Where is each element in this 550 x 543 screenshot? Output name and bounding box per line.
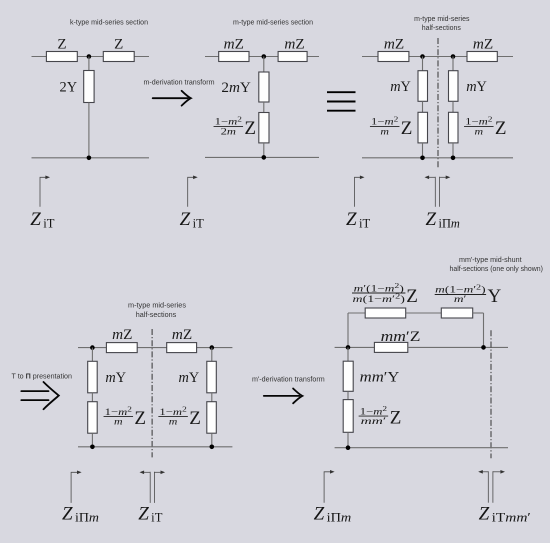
svg-text:Z: Z	[495, 118, 507, 139]
wire: C5 middle rail left part	[335, 346, 375, 348]
wire: C1 bottom rail	[32, 157, 150, 159]
wire: C4 right stub middle	[211, 393, 213, 402]
wire: C4 bottom rail	[78, 446, 232, 448]
resistor m(1-m'^2)/m' Y (C5 top right)	[435, 283, 502, 318]
node: C2 top junction	[262, 54, 267, 59]
node: C3 left top junction	[420, 54, 425, 59]
arrow: T to Pi (double arrow)	[21, 382, 59, 409]
wire: C3 right stub middle	[452, 101, 454, 112]
resistor mZ (C3 right series)	[467, 37, 497, 62]
svg-text:mY: mY	[390, 79, 411, 95]
wire: C2 shunt stub middle	[263, 102, 265, 113]
resistor mZ (C4 right series)	[167, 327, 197, 353]
wire: C3 bottom rail	[362, 157, 513, 159]
wire: C1 top rail	[32, 56, 150, 58]
svg-text:2mY: 2mY	[221, 80, 251, 96]
svg-text:m: m	[475, 127, 484, 137]
wire: C3 top rail	[362, 56, 513, 58]
svg-text:mm′: mm′	[361, 417, 387, 427]
resistor (1-m^2)/mm' Z (C5 shunt lower)	[343, 400, 401, 433]
svg-text:mZ: mZ	[473, 37, 493, 53]
node: C1 top junction	[87, 54, 92, 59]
resistor 2Y (C1 shunt)	[60, 71, 95, 103]
dash-dot section plane (C3)	[437, 38, 439, 168]
svg-text:mZ: mZ	[172, 327, 192, 343]
svg-text:Z: Z	[390, 407, 402, 428]
svg-text:m: m	[114, 418, 123, 428]
node: C2 bottom junction	[262, 155, 267, 160]
dash-dot section plane (C5)	[490, 330, 492, 458]
svg-text:m: m	[169, 418, 178, 428]
wire: C3 left stub top	[422, 57, 424, 71]
resistor (1-m^2)/m Z (C3 right shunt lower)	[449, 112, 507, 143]
node: C3 right bottom junction	[451, 156, 456, 161]
label ZiPim (C5)	[314, 503, 352, 524]
svg-text:mm'-type mid-shunt: mm'-type mid-shunt	[459, 257, 522, 264]
resistor (1-m^2)/2m Z (C2 shunt lower)	[214, 113, 269, 143]
double-line arrows: C4 ZiT plane	[140, 471, 166, 503]
resistor mm'Y (C5 shunt upper)	[343, 361, 399, 391]
node: C3 right top junction	[451, 54, 456, 59]
svg-text:Z: Z	[244, 118, 256, 139]
wire: C4 left stub top	[91, 348, 93, 362]
wire: C2 bottom rail	[205, 156, 319, 158]
wire: C3 left stub middle	[422, 101, 424, 112]
resistor mZ (C3 left series)	[378, 37, 409, 62]
label ZiT (C3)	[346, 209, 371, 230]
svg-text:m: m	[380, 127, 389, 137]
svg-text:2Y: 2Y	[60, 80, 78, 96]
wire: C3 left stub bottom	[422, 143, 424, 158]
wire: C5 shunt stub middle	[347, 391, 349, 399]
svg-text:mY: mY	[178, 370, 199, 386]
wire: C4 top rail	[78, 347, 232, 349]
svg-text:iT: iT	[151, 511, 163, 525]
wire: C5 top branch right segment	[473, 312, 484, 314]
node: C5 left middle junction	[346, 345, 351, 350]
node: C1 bottom junction	[87, 156, 92, 161]
svg-text:Z: Z	[406, 286, 418, 307]
wire: C2 top rail	[205, 56, 319, 58]
wire: C5 middle rail right part	[408, 346, 508, 348]
svg-text:Z: Z	[346, 209, 357, 230]
svg-text:mZ: mZ	[224, 37, 244, 53]
svg-text:Y: Y	[488, 286, 502, 307]
svg-text:mZ: mZ	[284, 37, 304, 53]
svg-text:Z: Z	[401, 118, 413, 139]
wire: C3 right stub top	[452, 57, 454, 71]
svg-text:Z: Z	[479, 503, 490, 524]
wire: C4 left stub bottom	[91, 433, 93, 447]
svg-text:Z: Z	[62, 503, 73, 524]
wire: C4 left stub middle	[91, 393, 93, 402]
node: C3 left bottom junction	[420, 156, 425, 161]
label ZiPim (C3)	[426, 209, 460, 230]
svg-text:Z: Z	[57, 37, 66, 53]
wire: C5 top branch left segment	[348, 312, 365, 314]
arrow: m'-derivation transform	[264, 389, 303, 404]
node: C4 right top junction	[210, 345, 215, 350]
title: mm'-type mid-shunt half-sections (one only shown)	[450, 257, 543, 273]
svg-text:Z: Z	[426, 209, 437, 230]
svg-text:mY: mY	[466, 79, 487, 95]
label ZiT (C4)	[138, 503, 163, 524]
dash-dot section plane (C4)	[151, 329, 153, 457]
svg-text:iΠm: iΠm	[75, 511, 99, 525]
wire: C5 top branch middle segment	[406, 312, 442, 314]
svg-text:m-type mid-series: m-type mid-series	[128, 303, 187, 310]
svg-text:half-sections: half-sections	[422, 25, 462, 32]
label ZiTmm' (C5)	[479, 503, 532, 524]
svg-text:Z: Z	[134, 408, 146, 429]
node: C4 left bottom junction	[90, 445, 95, 450]
elbow arrow: C5 ZiPim measurement	[324, 470, 335, 503]
resistor Z (C1 left series)	[46, 37, 77, 62]
wire: C5 top branch right riser	[483, 313, 485, 347]
elbow arrow: C2 ZiT measurement	[188, 176, 198, 207]
node: C5 bottom junction	[346, 445, 351, 450]
wire: C5 bottom rail	[335, 447, 508, 449]
wire: C5 top branch left riser	[347, 313, 349, 347]
svg-text:iΠm: iΠm	[439, 217, 460, 231]
svg-text:half-sections (one only shown): half-sections (one only shown)	[450, 266, 543, 273]
elbow arrow: C1 ZiT measurement	[40, 176, 50, 207]
svg-text:mm′Y: mm′Y	[360, 369, 400, 385]
resistor Z (C1 right series)	[103, 37, 134, 62]
wire: C4 right stub top	[211, 348, 213, 362]
resistor mY (C4 left shunt upper)	[88, 361, 127, 393]
resistor mZ (C2 right series)	[278, 37, 307, 62]
node: C4 right bottom junction	[210, 445, 215, 450]
svg-text:T to Π presentation: T to Π presentation	[12, 373, 73, 380]
svg-text:mZ: mZ	[384, 37, 404, 53]
wire: C4 right stub bottom	[211, 433, 213, 447]
wire: C1 shunt stub top	[88, 57, 90, 71]
wire: C1 shunt stub bottom	[88, 103, 90, 158]
double-line arrows: C5 ZiTmm' plane	[478, 470, 505, 503]
wire: C5 shunt stub top	[347, 347, 349, 361]
elbow arrow: C4 ZiPim measurement	[71, 471, 82, 503]
svg-text:iT: iT	[193, 217, 205, 231]
title: m-type mid-series half-sections	[128, 303, 187, 319]
svg-text:iT: iT	[43, 217, 55, 231]
svg-text:2m: 2m	[221, 127, 237, 137]
resistor mm'Z (C5 series)	[374, 329, 420, 353]
svg-text:m'-derivation transform: m'-derivation transform	[252, 376, 325, 383]
svg-text:Z: Z	[314, 503, 325, 524]
resistor mZ (C4 left series)	[106, 327, 137, 353]
double-line arrows: C3 ZiPim plane	[425, 176, 451, 207]
svg-text:iΠm: iΠm	[327, 511, 352, 525]
svg-text:iT: iT	[359, 217, 371, 231]
svg-text:half-sections: half-sections	[136, 312, 177, 319]
wire: C3 right stub bottom	[452, 143, 454, 158]
title: m-type mid-series half-sections	[414, 16, 470, 32]
elbow arrow: C3 ZiT measurement	[355, 176, 365, 207]
arrow: m-derivation transform	[153, 91, 191, 106]
resistor m'(1-m^2)/m(1-m'^2) Z (C5 top left)	[352, 282, 418, 318]
label ZiT (C1)	[30, 209, 55, 230]
resistor mZ (C2 left series)	[219, 37, 249, 62]
wire: C2 shunt stub top	[263, 57, 265, 73]
svg-text:m-derivation transform: m-derivation transform	[144, 80, 215, 87]
label ZiPim (C4)	[62, 503, 99, 524]
svg-text:Z: Z	[189, 408, 201, 429]
node: C5 right middle junction	[481, 345, 486, 350]
svg-text:Z: Z	[138, 503, 149, 524]
resistor mY (C4 right shunt upper)	[178, 361, 216, 393]
svg-text:Z: Z	[180, 209, 191, 230]
svg-text:m′: m′	[454, 295, 467, 305]
resistor (1-m^2)/m Z (C4 left shunt lower)	[88, 402, 146, 434]
wire: C5 shunt stub bottom	[347, 432, 349, 447]
svg-text:iTmm′: iTmm′	[492, 511, 532, 525]
resistor 2mY (C2 shunt upper)	[221, 72, 269, 102]
resistor (1-m^2)/m Z (C3 left shunt lower)	[370, 112, 428, 143]
svg-text:Z: Z	[30, 209, 41, 230]
svg-text:mm′Z: mm′Z	[381, 329, 421, 345]
svg-text:mY: mY	[105, 370, 126, 386]
resistor (1-m^2)/m Z (C4 right shunt lower)	[158, 402, 216, 434]
svg-text:m-type mid-series section: m-type mid-series section	[233, 20, 313, 27]
svg-text:k-type mid-series section: k-type mid-series section	[70, 20, 148, 27]
svg-text:mZ: mZ	[112, 327, 132, 343]
equivalence sign	[327, 92, 356, 111]
resistor mY (C3 left shunt upper)	[390, 71, 427, 102]
label ZiT (C2)	[180, 209, 205, 230]
wire: C2 shunt stub bottom	[263, 143, 265, 158]
svg-text:m-type mid-series: m-type mid-series	[414, 16, 470, 23]
node: C4 left top junction	[90, 345, 95, 350]
resistor mY (C3 right shunt upper)	[449, 71, 488, 102]
svg-text:Z: Z	[114, 37, 123, 53]
